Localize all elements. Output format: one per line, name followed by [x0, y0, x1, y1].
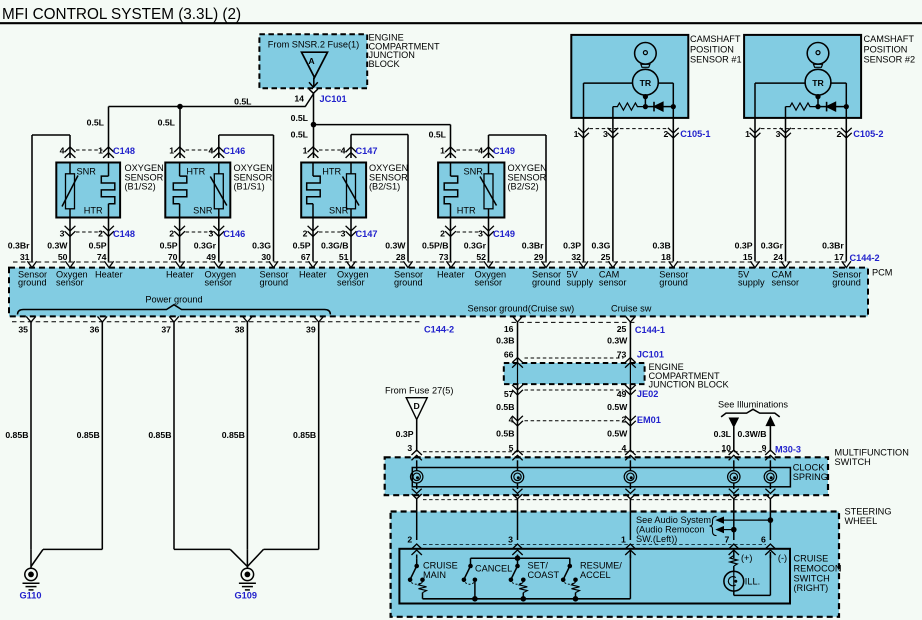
svg-text:See Audio System: See Audio System	[636, 515, 711, 525]
svg-text:Sensor ground(Cruise sw): Sensor ground(Cruise sw)	[468, 304, 575, 314]
svg-text:3: 3	[60, 229, 65, 239]
svg-text:0.3L: 0.3L	[714, 429, 732, 439]
svg-text:4: 4	[341, 146, 346, 156]
svg-text:(B1/S2): (B1/S2)	[125, 182, 156, 192]
svg-text:73: 73	[439, 252, 449, 262]
svg-text:sensor: sensor	[772, 278, 800, 288]
svg-text:52: 52	[476, 252, 486, 262]
svg-text:0.85B: 0.85B	[148, 430, 171, 440]
svg-text:7: 7	[724, 535, 729, 545]
svg-text:2: 2	[303, 229, 308, 239]
svg-text:Power ground: Power ground	[145, 294, 202, 304]
svg-text:0.3W/B: 0.3W/B	[738, 429, 767, 439]
svg-text:0.5P: 0.5P	[89, 240, 107, 250]
svg-text:POSITION: POSITION	[864, 44, 908, 54]
svg-text:TR: TR	[812, 78, 824, 88]
svg-text:4: 4	[208, 146, 213, 156]
svg-text:SNR: SNR	[464, 167, 484, 177]
svg-text:Heater: Heater	[166, 269, 194, 279]
svg-text:MFI CONTROL SYSTEM (3.3L) (2): MFI CONTROL SYSTEM (3.3L) (2)	[2, 6, 241, 23]
svg-text:57: 57	[504, 389, 514, 399]
svg-text:28: 28	[396, 252, 406, 262]
svg-text:1: 1	[98, 146, 103, 156]
svg-text:MULTIFUNCTION: MULTIFUNCTION	[835, 447, 909, 457]
svg-text:0.3G: 0.3G	[592, 240, 611, 250]
svg-text:sensor: sensor	[599, 278, 627, 288]
svg-text:JUNCTION BLOCK: JUNCTION BLOCK	[649, 380, 730, 390]
svg-text:Heater: Heater	[299, 269, 327, 279]
svg-text:C144-2: C144-2	[424, 324, 454, 334]
svg-text:CLOCK: CLOCK	[793, 462, 826, 472]
svg-text:D: D	[414, 401, 420, 411]
svg-text:ground: ground	[659, 278, 688, 288]
svg-text:BLOCK: BLOCK	[369, 59, 401, 69]
svg-text:C148: C148	[113, 229, 135, 239]
svg-text:0.5P/B: 0.5P/B	[422, 240, 449, 250]
svg-text:sensor: sensor	[337, 278, 365, 288]
svg-text:0.5B: 0.5B	[496, 402, 514, 412]
svg-text:0.3P: 0.3P	[563, 240, 581, 250]
svg-text:sensor: sensor	[205, 278, 233, 288]
svg-text:C146: C146	[223, 229, 245, 239]
svg-text:0.5L: 0.5L	[291, 130, 309, 140]
svg-text:WHEEL: WHEEL	[845, 516, 878, 526]
svg-text:COAST: COAST	[528, 570, 560, 580]
svg-text:SWITCH: SWITCH	[794, 573, 830, 583]
svg-text:1: 1	[169, 146, 174, 156]
svg-text:ground: ground	[260, 278, 289, 288]
svg-text:From SNSR.2 Fuse(1): From SNSR.2 Fuse(1)	[268, 40, 359, 50]
svg-text:6: 6	[761, 535, 766, 545]
svg-text:HTR: HTR	[457, 206, 476, 216]
svg-text:39: 39	[306, 324, 316, 334]
svg-text:C149: C149	[493, 229, 515, 239]
svg-text:0.3P: 0.3P	[735, 240, 753, 250]
svg-text:35: 35	[18, 324, 28, 334]
svg-text:4: 4	[60, 146, 65, 156]
svg-text:C105-1: C105-1	[680, 129, 710, 139]
svg-text:C144-1: C144-1	[635, 325, 665, 335]
svg-text:CRUISE: CRUISE	[794, 554, 829, 564]
svg-text:SENSOR #1: SENSOR #1	[690, 55, 742, 65]
svg-text:MAIN: MAIN	[423, 570, 446, 580]
svg-text:2: 2	[98, 229, 103, 239]
svg-text:0.3W: 0.3W	[47, 240, 68, 250]
svg-text:4: 4	[509, 414, 514, 424]
svg-text:70: 70	[168, 252, 178, 262]
svg-text:0.3B: 0.3B	[496, 335, 514, 345]
svg-text:CANCEL: CANCEL	[475, 564, 512, 574]
svg-text:0.3W: 0.3W	[607, 335, 628, 345]
svg-text:0.5L: 0.5L	[87, 118, 105, 128]
svg-text:32: 32	[571, 252, 581, 262]
svg-text:3: 3	[776, 129, 781, 139]
svg-text:1: 1	[574, 129, 579, 139]
svg-text:30: 30	[261, 252, 271, 262]
svg-text:sensor: sensor	[475, 278, 503, 288]
svg-text:0.5L: 0.5L	[291, 113, 309, 123]
svg-text:From Fuse 27(5): From Fuse 27(5)	[385, 385, 453, 395]
svg-text:M30-3: M30-3	[775, 444, 801, 454]
svg-text:3: 3	[407, 443, 412, 453]
svg-text:CRUISE: CRUISE	[423, 561, 458, 571]
svg-text:0.3Br: 0.3Br	[8, 240, 30, 250]
svg-text:ground: ground	[832, 278, 861, 288]
svg-text:29: 29	[534, 252, 544, 262]
svg-text:66: 66	[504, 349, 514, 359]
svg-text:(B1/S1): (B1/S1)	[234, 182, 265, 192]
svg-text:SENSOR #2: SENSOR #2	[864, 55, 916, 65]
svg-text:(B2/S2): (B2/S2)	[508, 182, 539, 192]
svg-text:0.5L: 0.5L	[158, 118, 176, 128]
svg-text:PCM: PCM	[872, 268, 892, 278]
svg-text:18: 18	[661, 252, 671, 262]
svg-text:50: 50	[58, 252, 68, 262]
svg-text:2: 2	[836, 129, 841, 139]
svg-text:supply: supply	[738, 278, 765, 288]
svg-text:RESUME/: RESUME/	[580, 561, 622, 571]
svg-text:2: 2	[169, 229, 174, 239]
svg-text:EM01: EM01	[637, 415, 661, 425]
svg-text:2: 2	[440, 229, 445, 239]
svg-text:0.85B: 0.85B	[5, 430, 28, 440]
svg-text:JE02: JE02	[637, 389, 658, 399]
svg-text:0.5B: 0.5B	[496, 429, 514, 439]
svg-text:0.3W: 0.3W	[385, 240, 406, 250]
svg-text:POSITION: POSITION	[690, 44, 734, 54]
svg-text:A: A	[308, 56, 315, 66]
svg-text:38: 38	[235, 324, 245, 334]
svg-text:31: 31	[20, 252, 30, 262]
svg-text:TR: TR	[640, 78, 652, 88]
svg-text:17: 17	[834, 252, 844, 262]
svg-text:C149: C149	[493, 146, 515, 156]
svg-text:1: 1	[621, 535, 626, 545]
svg-text:0.3Gr: 0.3Gr	[761, 240, 784, 250]
svg-text:CAMSHAFT: CAMSHAFT	[864, 34, 915, 44]
svg-text:3: 3	[208, 229, 213, 239]
svg-text:ILL.: ILL.	[745, 576, 760, 586]
svg-text:3: 3	[341, 229, 346, 239]
svg-text:0.5P: 0.5P	[293, 240, 311, 250]
svg-text:15: 15	[743, 252, 753, 262]
svg-text:ground: ground	[18, 278, 47, 288]
svg-text:0.5L: 0.5L	[429, 130, 447, 140]
svg-text:(B2/S1): (B2/S1)	[369, 182, 400, 192]
svg-text:2: 2	[663, 129, 668, 139]
svg-text:14: 14	[294, 94, 304, 104]
svg-text:ground: ground	[532, 278, 561, 288]
svg-text:16: 16	[504, 324, 514, 334]
svg-text:0.3G: 0.3G	[252, 240, 271, 250]
svg-text:0.3Br: 0.3Br	[822, 240, 844, 250]
svg-text:(+): (+)	[741, 553, 752, 563]
svg-text:1: 1	[303, 146, 308, 156]
svg-text:ground: ground	[394, 278, 423, 288]
svg-text:G109: G109	[235, 591, 257, 601]
svg-text:STEERING: STEERING	[845, 506, 892, 516]
svg-text:(-): (-)	[778, 553, 787, 563]
svg-text:(RIGHT): (RIGHT)	[794, 583, 829, 593]
svg-text:74: 74	[97, 252, 107, 262]
svg-text:C147: C147	[356, 229, 378, 239]
svg-text:(Audio Remocon: (Audio Remocon	[636, 525, 704, 535]
svg-text:JC101: JC101	[637, 349, 664, 359]
svg-text:25: 25	[601, 252, 611, 262]
svg-text:HTR: HTR	[322, 167, 341, 177]
svg-text:sensor: sensor	[56, 278, 84, 288]
svg-text:C144-2: C144-2	[850, 253, 880, 263]
svg-text:3: 3	[603, 129, 608, 139]
svg-text:0.5W: 0.5W	[607, 402, 628, 412]
svg-text:HTR: HTR	[186, 167, 205, 177]
svg-text:C105-2: C105-2	[853, 129, 883, 139]
svg-text:0.5P: 0.5P	[160, 240, 178, 250]
svg-text:SNR: SNR	[329, 206, 349, 216]
svg-text:C148: C148	[113, 146, 135, 156]
svg-text:REMOCON: REMOCON	[794, 563, 842, 573]
svg-text:0.85B: 0.85B	[222, 430, 245, 440]
svg-text:3: 3	[508, 535, 513, 545]
svg-text:24: 24	[773, 252, 783, 262]
svg-text:SNR: SNR	[193, 206, 213, 216]
svg-text:G110: G110	[20, 591, 42, 601]
svg-text:3: 3	[478, 229, 483, 239]
svg-text:4: 4	[478, 146, 483, 156]
svg-text:51: 51	[339, 252, 349, 262]
svg-text:49: 49	[206, 252, 216, 262]
svg-text:0.3P: 0.3P	[396, 429, 414, 439]
svg-text:0.3Gr: 0.3Gr	[194, 240, 217, 250]
svg-text:0.5L: 0.5L	[234, 97, 252, 107]
svg-text:1: 1	[440, 146, 445, 156]
svg-text:supply: supply	[567, 278, 594, 288]
svg-text:SPRING: SPRING	[793, 472, 828, 482]
svg-text:2: 2	[407, 535, 412, 545]
svg-text:49: 49	[617, 389, 627, 399]
svg-text:0.3Gr: 0.3Gr	[464, 240, 487, 250]
svg-text:SNR: SNR	[76, 167, 96, 177]
svg-text:C147: C147	[356, 146, 378, 156]
svg-text:JC101: JC101	[320, 94, 347, 104]
svg-text:37: 37	[161, 324, 171, 334]
svg-text:See Illuminations: See Illuminations	[718, 399, 788, 409]
svg-text:0.3G/B: 0.3G/B	[321, 240, 349, 250]
svg-text:0.3B: 0.3B	[652, 240, 670, 250]
svg-text:SW.(Left)): SW.(Left))	[636, 534, 677, 544]
svg-text:36: 36	[90, 324, 100, 334]
svg-text:1: 1	[745, 129, 750, 139]
svg-text:25: 25	[617, 324, 627, 334]
svg-text:HTR: HTR	[84, 206, 103, 216]
svg-text:2: 2	[622, 414, 627, 424]
svg-text:0.3Br: 0.3Br	[522, 240, 544, 250]
svg-text:Heater: Heater	[437, 269, 465, 279]
svg-text:0.85B: 0.85B	[293, 430, 316, 440]
svg-text:SET/: SET/	[528, 561, 549, 571]
svg-text:CAMSHAFT: CAMSHAFT	[690, 34, 741, 44]
svg-text:0.5W: 0.5W	[607, 429, 628, 439]
svg-text:Cruise sw: Cruise sw	[611, 304, 652, 314]
svg-text:Heater: Heater	[95, 269, 123, 279]
svg-text:0.85B: 0.85B	[77, 430, 100, 440]
svg-text:SWITCH: SWITCH	[835, 457, 871, 467]
svg-text:67: 67	[301, 252, 311, 262]
svg-text:ACCEL: ACCEL	[580, 570, 611, 580]
svg-text:C146: C146	[223, 146, 245, 156]
